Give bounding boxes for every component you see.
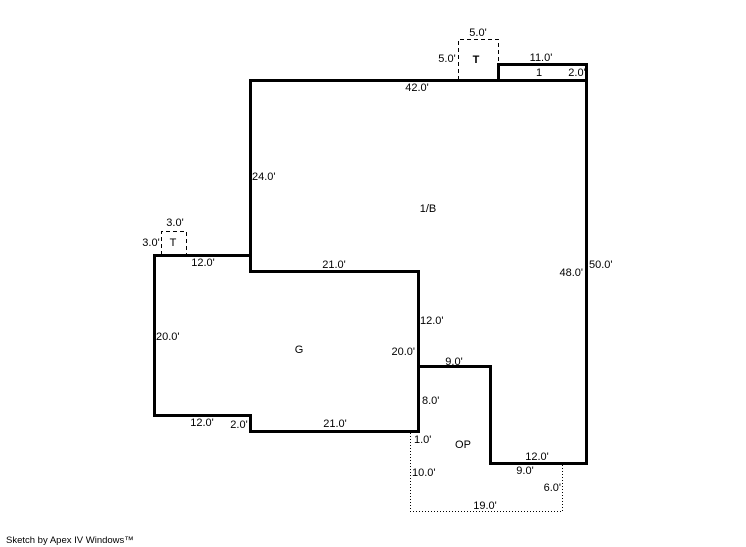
- svg-text:48.0': 48.0': [559, 267, 583, 279]
- svg-text:G: G: [295, 344, 304, 356]
- svg-text:19.0': 19.0': [473, 500, 497, 512]
- svg-text:12.0': 12.0': [191, 257, 215, 269]
- svg-text:1: 1: [536, 67, 542, 79]
- svg-text:6.0': 6.0': [544, 482, 561, 494]
- svg-text:12.0': 12.0': [525, 451, 549, 463]
- wall porch 1: [499, 65, 587, 81]
- dashed square T top: [459, 40, 499, 81]
- svg-text:9.0': 9.0': [445, 356, 462, 368]
- svg-text:42.0': 42.0': [405, 82, 429, 94]
- svg-text:T: T: [170, 237, 177, 249]
- svg-text:20.0': 20.0': [156, 331, 180, 343]
- svg-text:12.0': 12.0': [420, 315, 444, 327]
- svg-text:11.0': 11.0': [530, 52, 553, 64]
- svg-text:5.0': 5.0': [469, 27, 486, 39]
- svg-text:OP: OP: [455, 439, 471, 451]
- svg-text:21.0': 21.0': [323, 418, 347, 430]
- wall interior 21.0'/12.0' partition: [251, 254, 419, 367]
- dashed square T left: [162, 232, 187, 256]
- svg-text:3.0': 3.0': [142, 237, 159, 249]
- svg-text:2.0': 2.0': [568, 67, 585, 79]
- svg-text:24.0': 24.0': [252, 171, 276, 183]
- svg-text:T: T: [473, 54, 480, 66]
- svg-text:10.0': 10.0': [412, 467, 436, 479]
- svg-text:9.0': 9.0': [516, 465, 533, 477]
- svg-text:8.0': 8.0': [422, 395, 439, 407]
- svg-text:21.0': 21.0': [322, 259, 346, 271]
- wall main-outline: [155, 81, 587, 464]
- svg-text:12.0': 12.0': [190, 417, 214, 429]
- svg-text:1.0': 1.0': [414, 434, 431, 446]
- svg-text:2.0': 2.0': [230, 419, 247, 431]
- svg-text:20.0': 20.0': [391, 346, 415, 358]
- svg-text:1/B: 1/B: [420, 203, 437, 215]
- svg-text:5.0': 5.0': [438, 53, 455, 65]
- svg-text:50.0': 50.0': [589, 259, 613, 271]
- svg-text:Sketch by Apex IV Windows™: Sketch by Apex IV Windows™: [6, 535, 134, 546]
- svg-text:3.0': 3.0': [166, 217, 183, 229]
- dotted outline OP: [411, 433, 563, 512]
